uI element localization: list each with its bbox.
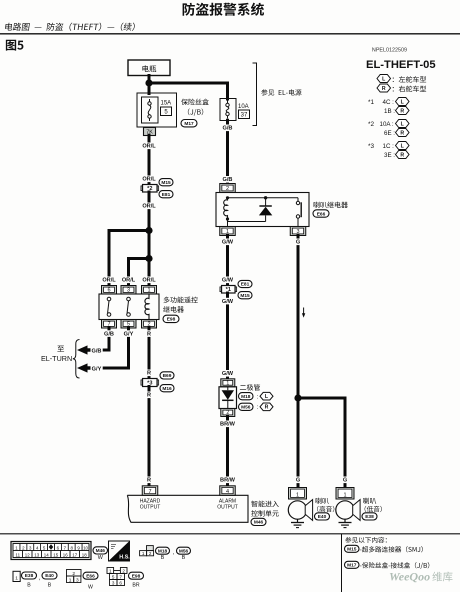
label G (295, 239, 301, 246)
svg-text:4C :: 4C : (383, 99, 395, 106)
label R (146, 477, 152, 484)
svg-text:E98: E98 (132, 573, 141, 579)
relay E98 pin 5 (121, 320, 136, 329)
label 喇叭继电器 E66 (314, 202, 348, 208)
diode pin 1 (221, 379, 235, 387)
svg-text:7: 7 (119, 574, 122, 579)
diode 二极管 body (219, 387, 237, 409)
svg-text:R: R (265, 404, 269, 410)
label G/W (221, 298, 233, 305)
svg-text:E98: E98 (167, 317, 176, 323)
svg-text:M17: M17 (184, 121, 194, 127)
svg-text:W: W (88, 584, 93, 590)
label OR/L (141, 176, 157, 183)
direction arrow marker (303, 308, 305, 315)
svg-text:3: 3 (127, 288, 130, 294)
svg-text:OR/L: OR/L (122, 278, 136, 284)
svg-text:G/W: G/W (222, 278, 234, 284)
wire pin5 to G/Y arrow (104, 328, 129, 368)
wire fuse37 to horn relay pin 2 (226, 120, 229, 185)
svg-text:10A: 10A (238, 104, 249, 110)
svg-text:R: R (382, 86, 386, 92)
horn relay coil (226, 196, 229, 199)
horn relay inner top rail (228, 197, 299, 199)
node battery junction (145, 79, 152, 86)
svg-text:M15: M15 (161, 180, 171, 186)
svg-text:M18: M18 (158, 548, 168, 554)
figure label 图5 (6, 40, 24, 51)
relay E98 coil (145, 294, 149, 320)
horn high pin 1 (289, 488, 307, 500)
svg-text:2: 2 (122, 568, 125, 573)
svg-text:2: 2 (226, 186, 229, 192)
svg-text:G: G (343, 478, 347, 484)
footnote 参见以下内容 (345, 537, 386, 543)
svg-text:E66: E66 (317, 211, 326, 217)
svg-text:1: 1 (296, 493, 299, 499)
svg-text:R: R (400, 130, 404, 136)
svg-text:OR/L: OR/L (142, 278, 156, 284)
wire branch to pin 6 (109, 231, 149, 287)
svg-text:BR/W: BR/W (220, 478, 236, 484)
label 保险丝盒 (J/B) M17 (181, 99, 209, 105)
svg-text:2: 2 (149, 551, 152, 556)
svg-text:10: 10 (83, 545, 88, 550)
svg-text:37: 37 (241, 113, 248, 119)
wire pin7 to G/B arrow (104, 328, 109, 350)
wire *2 down to relay pin 1 (148, 192, 151, 286)
svg-text:BR/W: BR/W (220, 422, 236, 428)
svg-text:M18: M18 (241, 394, 251, 400)
connector face E38/E40 (13, 571, 20, 581)
wire junction to right fuse (149, 83, 228, 99)
svg-text:E81: E81 (241, 282, 250, 288)
oval E38 legend (22, 572, 37, 579)
svg-text:6: 6 (107, 288, 110, 294)
horn relay pin 1 (220, 227, 236, 236)
label G/Y (90, 365, 102, 372)
wire coil to pin1 (227, 222, 229, 227)
svg-text:E40: E40 (45, 573, 54, 579)
oval E40 legend (42, 572, 57, 579)
bracket see EL-power (253, 63, 257, 126)
horn relay 喇叭继电器 body E66 (216, 193, 309, 227)
svg-text:OR/L: OR/L (142, 177, 156, 183)
horn low pin 1 (336, 488, 354, 500)
svg-text:M17: M17 (347, 562, 357, 568)
svg-text:7: 7 (148, 489, 151, 495)
fuse 15A F5 (142, 97, 159, 123)
svg-text:E38: E38 (365, 514, 374, 520)
svg-text:G: G (296, 478, 300, 484)
connector face E66 (67, 570, 82, 577)
wire diode to ALARM pin 4 (226, 417, 229, 488)
label G (295, 477, 301, 484)
svg-text:EL-TURN: EL-TURN (41, 354, 72, 363)
label R (146, 330, 152, 337)
label R (146, 392, 152, 399)
node junction horns (294, 394, 301, 401)
svg-text:G: G (296, 240, 300, 246)
svg-text:1: 1 (142, 551, 145, 556)
svg-text:G/B: G/B (92, 348, 102, 354)
label BR/W (220, 421, 236, 428)
control unit pin 4 ALARM OUTPUT (220, 486, 236, 496)
svg-text:5: 5 (112, 574, 115, 579)
fuse block J/B box (137, 93, 177, 127)
brace EL-TURN (73, 340, 80, 379)
svg-text:3: 3 (112, 580, 115, 585)
horn relay switch (297, 198, 299, 202)
svg-text:B: B (48, 582, 52, 588)
svg-text:*1: *1 (368, 99, 374, 106)
label OR/L (141, 277, 157, 284)
svg-text:OUTPUT: OUTPUT (140, 505, 161, 511)
svg-text:1: 1 (343, 493, 346, 499)
svg-text:M15: M15 (240, 293, 250, 299)
oval M56 legend (177, 547, 191, 554)
svg-text:M56: M56 (179, 548, 189, 554)
relay E98 pin 1 (142, 286, 157, 295)
svg-text:OR/L: OR/L (142, 144, 156, 150)
connector face M18/M56 (147, 546, 154, 551)
label OR/L (101, 277, 117, 284)
ground horn low (344, 519, 346, 522)
horn relay diode (264, 196, 267, 199)
diode pin 2 (221, 409, 235, 417)
oval M18 legend (156, 547, 170, 554)
label G/Y under pin5 (122, 330, 134, 337)
label G/W (221, 277, 233, 284)
svg-text:E81: E81 (162, 192, 171, 198)
svg-text:18: 18 (82, 552, 87, 557)
svg-text:3E :: 3E : (384, 152, 395, 159)
svg-text:R: R (400, 108, 404, 114)
svg-text:1B :: 1B : (384, 108, 395, 115)
svg-text:10A :: 10A : (380, 121, 394, 128)
svg-text:14: 14 (44, 552, 49, 557)
svg-text:11: 11 (15, 552, 20, 557)
relay E98 pin 7 (102, 320, 117, 329)
oval E81 (159, 191, 173, 198)
horn relay pin 3 (290, 227, 306, 236)
label R (146, 370, 152, 377)
svg-text:B: B (27, 582, 31, 588)
wire pin2 to connector *3 (148, 328, 151, 380)
svg-text:E38: E38 (25, 573, 34, 579)
oval M15 (159, 179, 173, 186)
svg-text:R: R (147, 478, 151, 484)
svg-text:G/W: G/W (222, 299, 234, 305)
label OR/L (141, 203, 157, 210)
horn relay inner bottom rail (228, 221, 266, 223)
svg-text:G/B: G/B (104, 331, 114, 337)
connector *2 (141, 186, 143, 191)
relay E98 pin 6 (102, 286, 117, 295)
svg-text:G/Y: G/Y (92, 366, 102, 372)
wire relay pin3 to horns (297, 236, 300, 490)
svg-text:OR/L: OR/L (102, 278, 116, 284)
svg-text:15A: 15A (161, 101, 172, 107)
svg-text:3: 3 (76, 577, 79, 583)
label BR/W (220, 477, 236, 484)
footer rule (0, 533, 460, 535)
svg-text:BR: BR (132, 582, 139, 588)
oval E66 legend (83, 572, 98, 579)
wire battery to junction (148, 76, 151, 94)
H.S. symbol (109, 541, 130, 561)
oval B69 (160, 372, 174, 379)
relay E98 contact b (127, 297, 131, 301)
svg-text:E40: E40 (318, 514, 327, 520)
svg-text:15: 15 (53, 552, 58, 557)
svg-text:M46: M46 (254, 520, 264, 526)
fuse 10A F37 box (220, 99, 236, 121)
oval E81 (238, 280, 252, 287)
label 喇叭 低音 E38 (363, 498, 376, 504)
label OR/L (141, 143, 157, 150)
connector face E98 (107, 568, 114, 574)
svg-text:R: R (147, 371, 151, 377)
oval M16 (160, 385, 174, 392)
control unit pin 7 HAZARD OUTPUT (142, 486, 158, 496)
svg-text:1: 1 (69, 577, 72, 583)
svg-text:G/Y: G/Y (124, 331, 134, 337)
svg-text:17: 17 (72, 552, 77, 557)
svg-text:NPEL0122509: NPEL0122509 (372, 48, 407, 54)
svg-text:6: 6 (119, 580, 122, 585)
svg-text:E66: E66 (86, 573, 95, 579)
svg-text:*3: *3 (368, 143, 374, 150)
svg-text:13: 13 (34, 552, 39, 557)
svg-text:R: R (400, 152, 404, 158)
footer divider (341, 534, 343, 592)
label G (342, 477, 348, 484)
footnote M17 J/B (345, 561, 360, 568)
svg-text:M15: M15 (347, 546, 357, 552)
arrow to EL-TURN G/B (77, 345, 91, 354)
wire branch to pin 3 (129, 259, 150, 287)
wire *1 to diode pin 1 (226, 293, 229, 380)
horn low 喇叭(低音) E38 (336, 501, 354, 519)
node junction B (145, 255, 152, 262)
svg-text:G/B: G/B (223, 126, 233, 132)
arrow to EL-TURN G/Y (77, 363, 91, 372)
svg-text:M56: M56 (241, 405, 251, 411)
connector face M46 grid (11, 542, 91, 560)
svg-text:1: 1 (226, 380, 229, 386)
wire branch to horn low (298, 398, 345, 489)
oval M46 legend (93, 547, 108, 554)
label G/W (221, 370, 233, 377)
relay E98 contact a (107, 297, 111, 301)
svg-text:B: B (161, 555, 165, 561)
svg-text:1: 1 (109, 568, 112, 573)
svg-text:R: R (147, 331, 151, 337)
svg-text:*2: *2 (368, 121, 374, 128)
horn relay pin 2 (220, 184, 236, 193)
ground horn high (297, 519, 299, 522)
svg-text:EL-THEFT-05: EL-THEFT-05 (366, 59, 436, 71)
title 防盗报警系统 (183, 3, 264, 16)
svg-text:1: 1 (15, 576, 18, 582)
svg-text:W: W (98, 555, 104, 561)
svg-text:M46: M46 (96, 548, 106, 554)
label 二极管 M18 M56 (240, 384, 260, 390)
svg-text:6E :: 6E : (384, 130, 395, 137)
label 喇叭 高音 E40 (316, 498, 329, 504)
footnote M15 SMJ (345, 545, 360, 552)
node junction A (145, 227, 152, 234)
svg-text:B: B (182, 555, 186, 561)
wire relay pin1 to *1 (226, 236, 229, 288)
svg-text:H.S.: H.S. (119, 555, 130, 561)
svg-text:4: 4 (226, 489, 229, 495)
label G/B (221, 125, 233, 132)
label G/B (221, 176, 233, 183)
svg-text:WeeQoo: WeeQoo (389, 570, 430, 584)
svg-text:OUTPUT: OUTPUT (217, 505, 238, 511)
battery 电瓶 (128, 60, 170, 76)
svg-text:12: 12 (25, 552, 30, 557)
relay E98 多功能遥控继电器 body (99, 294, 159, 320)
svg-text:OR/L: OR/L (142, 204, 156, 210)
svg-text:G/W: G/W (222, 240, 234, 246)
oval E98 legend (129, 572, 144, 579)
horn high 喇叭(高音) E40 (288, 501, 306, 519)
svg-text:G/B: G/B (223, 177, 233, 183)
label 智能进入控制单元 M46 (251, 501, 278, 507)
svg-text:1C :: 1C : (383, 143, 395, 150)
subtitle 电路图-防盗(THEFT)-(续) (5, 23, 135, 31)
wire fuse to connector *2 (148, 135, 151, 186)
legend R symbol 右舵车型 (377, 84, 391, 92)
header rule (0, 33, 460, 35)
smart entry control unit 智能进入控制单元 M46 (127, 495, 248, 522)
svg-text:16: 16 (63, 552, 68, 557)
relay E98 pin 2 (142, 320, 157, 329)
wire *3 to HAZARD pin 7 (148, 387, 151, 488)
label 多功能遥控继电器 E98 (164, 297, 198, 303)
label OR/L (121, 277, 137, 284)
svg-text:R: R (147, 393, 151, 399)
connector 7K (144, 128, 156, 136)
svg-text:M16: M16 (162, 386, 172, 392)
label G/B under pin7 (103, 330, 115, 337)
oval M15 (238, 292, 252, 299)
svg-text:1: 1 (147, 288, 150, 294)
label G/W (221, 239, 233, 246)
relay E98 pin 3 (121, 286, 136, 295)
svg-text:G/W: G/W (222, 371, 234, 377)
label 至 EL-TURN (57, 346, 64, 352)
label G/B (90, 347, 102, 354)
svg-text:B69: B69 (163, 373, 172, 379)
connector *3 (141, 380, 143, 385)
connector *1 (220, 287, 222, 292)
legend L symbol 左舵车型 (377, 75, 391, 83)
